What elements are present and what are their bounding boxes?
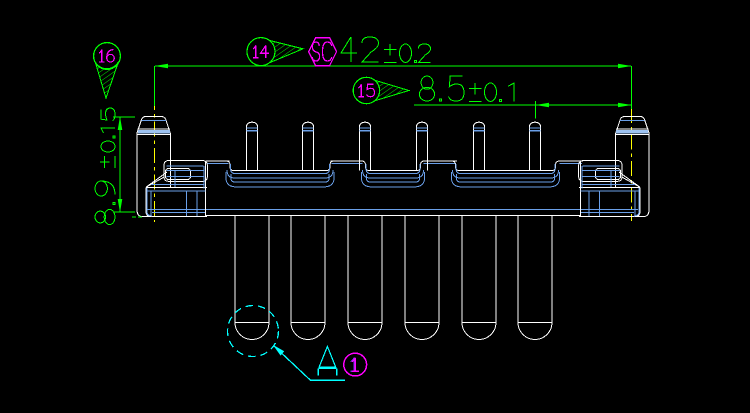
balloon 15: [375, 80, 409, 101]
top pin 6: [530, 122, 541, 170]
body right end line: [580, 161, 582, 217]
dimension 42 lines: [155, 65, 631, 67]
balloon 16: [95, 62, 118, 98]
centerline left post: [154, 95, 156, 222]
dimension text 8.9: [95, 181, 115, 225]
dimension 8.9 lines: [119, 117, 121, 212]
dimension 8.5 lines: [414, 104, 631, 106]
dimension text 42: [341, 37, 379, 62]
leg 4: [405, 216, 439, 340]
detail circle (dashed): [228, 306, 279, 357]
datum triangle A symbol: [319, 347, 336, 368]
body bottom edge blue: [147, 209, 638, 211]
right flange and post (mirrored): [579, 116, 649, 216]
dimension text +-0.15: [100, 108, 115, 168]
slot 2 (middle recess): [362, 161, 425, 171]
balloon 14: [269, 40, 303, 62]
balloon 1 (circled): [344, 353, 367, 376]
hexagon SC symbol: [309, 38, 337, 66]
centerline right post: [631, 108, 633, 221]
leg 2: [291, 216, 325, 340]
body top surface segment 2: [331, 160, 364, 162]
leg 3: [348, 216, 382, 340]
slot 1 (recess): [226, 161, 334, 171]
body top surface segment 4: [559, 160, 584, 162]
leg 6: [518, 216, 552, 340]
top pin 3: [360, 122, 371, 170]
body bottom edge white: [205, 214, 581, 216]
top pin 1: [247, 122, 258, 170]
slot 3 (recess): [452, 161, 560, 171]
dimension text +-0.1: [469, 83, 514, 102]
body top surface segment 1: [206, 160, 230, 162]
top pin 4: [417, 122, 428, 170]
body top surface segment 3: [423, 160, 458, 162]
body left end line: [205, 161, 207, 217]
leader arrow to detail circle: [274, 346, 345, 380]
leg 5: [462, 216, 496, 340]
dimension text 8.5: [419, 76, 464, 101]
left flange and post: [137, 116, 207, 216]
top pin 5: [474, 122, 485, 170]
leg 1: [235, 216, 269, 340]
top pin 2: [303, 122, 314, 170]
dimension text +-0.2: [384, 44, 431, 63]
